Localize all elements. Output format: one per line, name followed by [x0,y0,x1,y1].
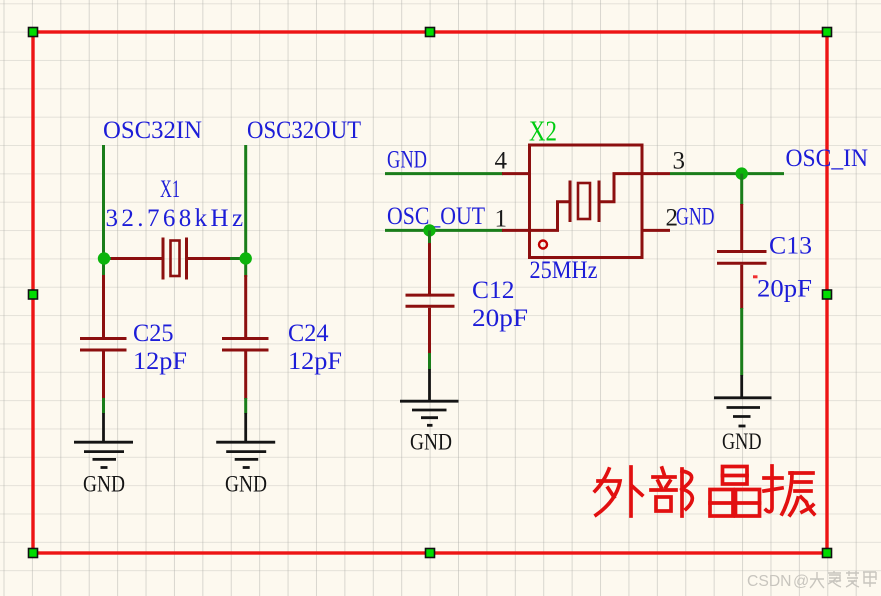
char 外 [595,467,642,516]
svg-text:3: 3 [673,147,686,174]
svg-text:GND: GND [722,429,762,454]
junction dot node OSC32OUT [240,252,252,264]
svg-text:X2: X2 [529,117,557,148]
wire OSC32OUT vertical [244,145,247,277]
wire crystal X1 right green stub [230,257,246,260]
selection handle top-right [823,28,832,37]
pin 3 stub [642,172,670,175]
capacitor C12 [406,243,455,354]
svg-text:GND: GND [676,204,715,231]
char 晶 [710,467,760,517]
selection handle bottom-right [823,549,832,558]
sheet border selection rectangle [33,32,827,553]
wire crystal X1 left green stub [104,257,113,260]
selection handle bottom-middle [426,549,435,558]
wire pin 3 to OSC_IN [670,172,784,175]
svg-text:OSC32OUT: OSC32OUT [247,117,361,144]
ground symbol under C24 [216,413,275,468]
wire C25 to ground green stub [102,398,105,414]
char 振 [764,466,814,515]
svg-text:GND: GND [387,147,427,174]
capacitor C24 [222,275,269,399]
svg-text:20pF: 20pF [757,275,812,302]
ground symbol under C12 [400,369,459,425]
wire GND net to pin 4 [385,172,503,175]
capacitor C13 [717,204,767,309]
svg-text:25MHz: 25MHz [530,257,598,284]
wire C12 branch green stub [428,230,431,244]
wire C24 to ground green stub [244,398,247,414]
svg-text:12pF: 12pF [288,348,342,375]
wire C13 to ground green [740,308,743,376]
svg-text:OSC_IN: OSC_IN [786,145,869,172]
ground symbol under C13 [714,375,772,426]
wire junction to C13 green [740,174,743,205]
svg-text:12pF: 12pF [133,348,187,375]
pin 1 indicator circle [539,241,547,249]
svg-text:C12: C12 [472,277,515,304]
junction dot OSC_OUT / C12 [423,224,435,236]
svg-text:4: 4 [495,148,508,175]
char 部 [651,468,692,516]
capacitor C25 [80,275,127,399]
junction dot node OSC32IN [98,252,110,264]
stray red tick [753,275,758,278]
svg-text:OSC32IN: OSC32IN [103,117,202,144]
ground symbol under C25 [74,413,133,468]
svg-text:CSDN: CSDN [747,573,792,590]
svg-text:GND: GND [410,430,452,455]
selection handle top-left [29,28,38,37]
selection handle mid-left [29,290,38,299]
crystal X2 body box [530,145,643,258]
svg-text:1: 1 [495,206,508,233]
watermark CJK 大象荒野 strokes [810,571,876,588]
pin 1 stub [502,229,530,232]
selection handle top-middle [426,28,435,37]
svg-text:X1: X1 [160,176,180,203]
svg-text:20pF: 20pF [472,305,528,332]
selection handle mid-right [823,290,832,299]
title text 外部晶振 (external crystal) drawn as strokes [595,466,814,516]
svg-text:C25: C25 [133,320,174,347]
crystal X1 [111,238,231,280]
wire OSC32IN vertical [102,145,105,277]
svg-text:OSC_OUT: OSC_OUT [387,203,485,230]
wire OSC_OUT to pin 1 [385,229,503,232]
junction dot OSC_IN / C13 [736,167,748,179]
pin 2 stub [642,229,670,232]
wire C12 to ground green stub [428,353,431,370]
svg-text:32.768kHz: 32.768kHz [106,205,247,232]
selection handle bottom-left [29,549,38,558]
svg-text:C24: C24 [288,320,329,347]
crystal X2 internal symbol [530,174,643,231]
svg-text:C13: C13 [769,233,812,260]
svg-text:GND: GND [225,472,267,497]
svg-text:GND: GND [83,472,125,497]
svg-text:@: @ [793,573,809,590]
pin 4 stub [502,172,530,175]
